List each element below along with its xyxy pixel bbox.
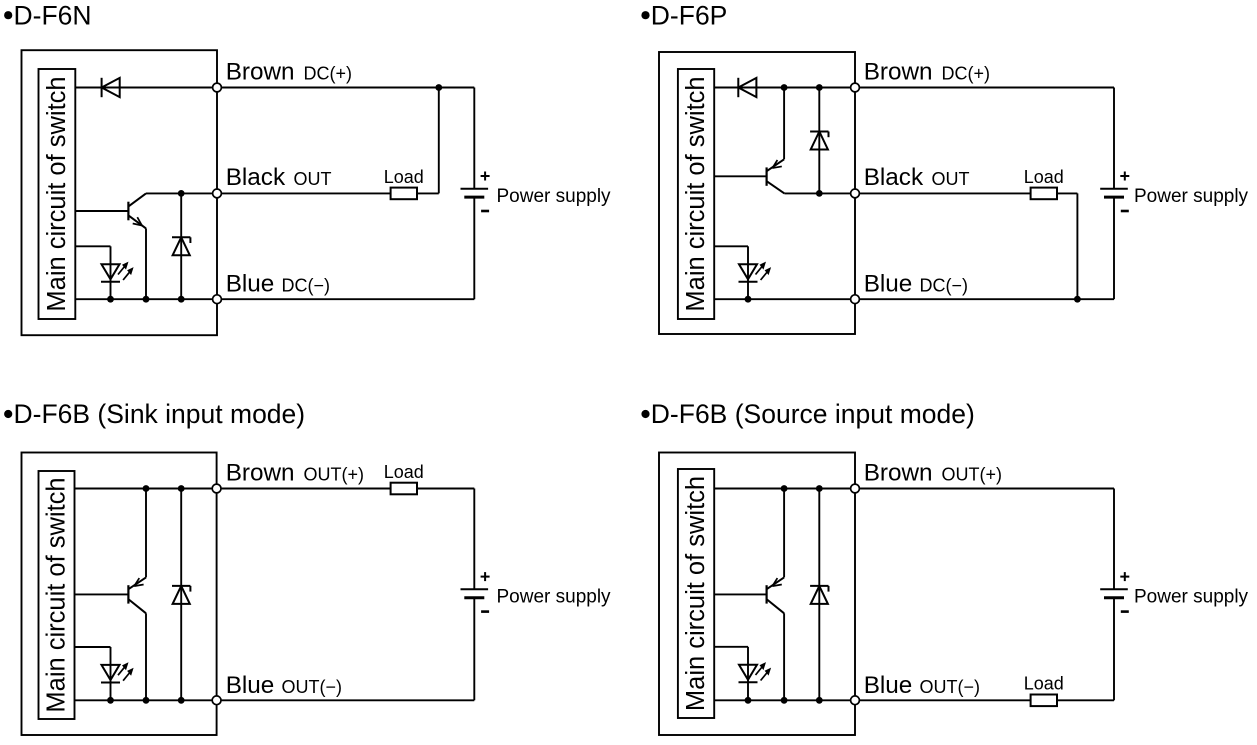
svg-text:Power supply: Power supply (497, 186, 612, 207)
svg-text:Main circuit of switch: Main circuit of switch (43, 76, 71, 311)
svg-text:DC(−): DC(−) (920, 276, 969, 296)
svg-text:Black: Black (226, 164, 286, 191)
svg-text:Load: Load (1024, 167, 1064, 187)
svg-text:Load: Load (384, 167, 424, 187)
svg-text:Main circuit of switch: Main circuit of switch (682, 76, 710, 311)
svg-text:Power supply: Power supply (1134, 186, 1249, 207)
svg-text:OUT: OUT (294, 169, 332, 189)
svg-text:Load: Load (384, 462, 424, 482)
svg-text:Blue: Blue (226, 672, 275, 699)
svg-text:Brown: Brown (226, 460, 295, 487)
svg-text:Load: Load (1024, 674, 1064, 694)
svg-text:D-F6B (Source input mode): D-F6B (Source input mode) (651, 399, 975, 429)
svg-text:DC(+): DC(+) (942, 64, 991, 84)
svg-text:Main circuit of switch: Main circuit of switch (43, 477, 71, 712)
svg-text:Brown: Brown (226, 59, 295, 86)
svg-text:Power supply: Power supply (497, 586, 612, 607)
svg-text:DC(−): DC(−) (282, 276, 331, 296)
svg-text:D-F6B (Sink input mode): D-F6B (Sink input mode) (14, 399, 306, 429)
svg-text:DC(+): DC(+) (304, 64, 353, 84)
svg-text:OUT(−): OUT(−) (920, 677, 981, 697)
svg-text:Blue: Blue (864, 672, 913, 699)
svg-text:OUT(+): OUT(+) (304, 465, 365, 485)
svg-text:D-F6N: D-F6N (14, 0, 92, 30)
svg-text:Main circuit of switch: Main circuit of switch (682, 476, 710, 711)
svg-text:OUT(−): OUT(−) (282, 677, 343, 697)
svg-text:Blue: Blue (226, 271, 275, 298)
svg-text:Brown: Brown (864, 59, 933, 86)
svg-text:OUT(+): OUT(+) (942, 465, 1003, 485)
svg-text:Power supply: Power supply (1134, 586, 1249, 607)
svg-text:Blue: Blue (864, 271, 913, 298)
svg-text:Black: Black (864, 164, 924, 191)
svg-text:D-F6P: D-F6P (651, 0, 728, 30)
svg-text:Brown: Brown (864, 460, 933, 487)
svg-text:OUT: OUT (932, 169, 970, 189)
